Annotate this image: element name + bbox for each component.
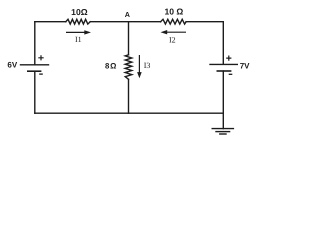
battery V1 6V long plate xyxy=(21,64,49,66)
svg-text:A: A xyxy=(125,10,130,19)
svg-text:Ω: Ω xyxy=(110,61,116,70)
wire node A branch upper xyxy=(128,22,130,55)
wire right vertical upper xyxy=(222,22,224,64)
wire left vertical lower xyxy=(34,71,36,113)
battery V2 plus sign xyxy=(226,56,231,61)
battery V2 7V long plate xyxy=(210,63,237,65)
wire top rail right segment xyxy=(186,21,223,23)
battery V2 minus sign xyxy=(229,73,233,75)
current arrow I2 xyxy=(161,30,187,34)
svg-text:I3: I3 xyxy=(144,61,151,70)
svg-text:I1: I1 xyxy=(75,35,82,44)
svg-text:10 Ω: 10 Ω xyxy=(164,7,183,17)
resistor R2 10 ohm zigzag xyxy=(161,19,187,24)
battery V1 6V short plate xyxy=(28,70,41,72)
current arrow I1 xyxy=(66,30,91,34)
battery V2 7V short plate xyxy=(217,70,230,72)
battery V1 plus sign xyxy=(38,55,43,60)
wire node A branch lower xyxy=(128,79,130,113)
svg-text:I2: I2 xyxy=(169,36,176,45)
resistor R3 8 ohm vertical zigzag xyxy=(125,55,132,80)
wire right vertical lower to ground xyxy=(222,71,224,129)
wire left vertical upper xyxy=(34,22,36,64)
current arrow I3 xyxy=(137,55,142,78)
resistor R1 10 ohm zigzag xyxy=(66,19,90,24)
svg-text:10Ω: 10Ω xyxy=(71,7,88,17)
wire top rail middle segment xyxy=(90,21,160,23)
svg-text:6V: 6V xyxy=(7,61,17,70)
wire top rail left segment xyxy=(35,21,66,23)
battery V1 minus sign xyxy=(39,73,43,75)
svg-text:7V: 7V xyxy=(240,62,250,71)
ground symbol xyxy=(212,128,233,130)
wire bottom rail xyxy=(35,112,224,114)
